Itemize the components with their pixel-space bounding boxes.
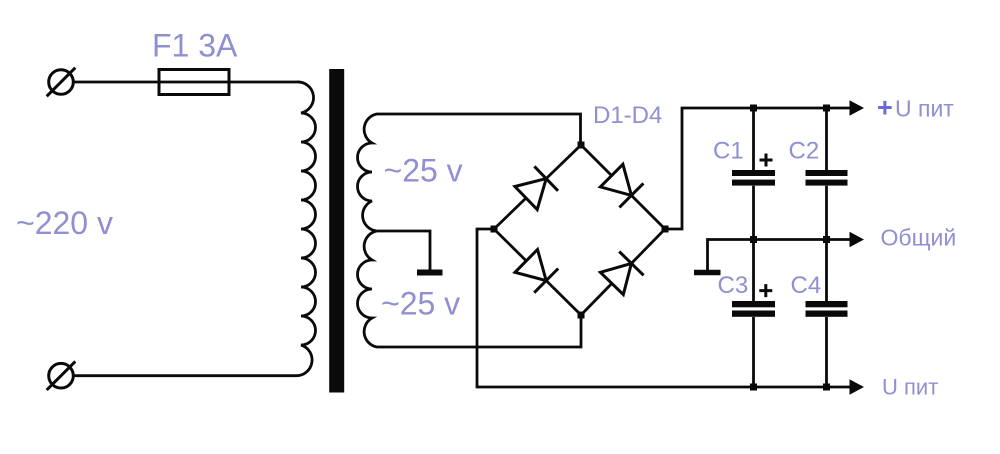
svg-text:C1: C1 (713, 138, 744, 165)
svg-text:~25 v: ~25 v (384, 153, 463, 189)
svg-text:U пит: U пит (882, 375, 938, 400)
svg-text:C2: C2 (789, 138, 820, 165)
svg-text:C3: C3 (718, 272, 749, 299)
svg-text:~25 v: ~25 v (381, 286, 460, 322)
svg-text:Общий: Общий (881, 225, 957, 251)
svg-text:U пит: U пит (895, 96, 954, 122)
svg-text:D1-D4: D1-D4 (593, 102, 662, 129)
svg-text:C4: C4 (791, 272, 822, 299)
svg-text:F1 3A: F1 3A (152, 28, 238, 64)
svg-text:+: + (877, 93, 893, 123)
svg-text:~220 v: ~220 v (16, 205, 113, 241)
